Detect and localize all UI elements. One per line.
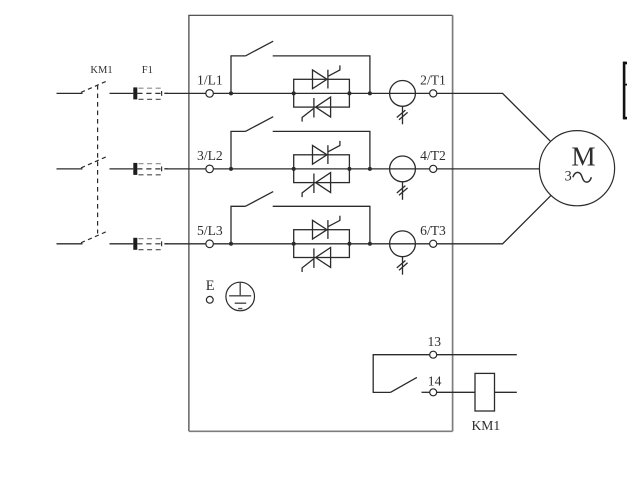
svg-text:13: 13 <box>428 334 442 349</box>
wire terminal 6/T3 to motor <box>437 195 551 243</box>
auxiliary contact (start) <box>390 377 429 392</box>
terminal 1/L1 <box>197 72 223 97</box>
terminal E (earth) <box>206 278 215 303</box>
terminal 4/T2 <box>420 148 446 173</box>
SCR V2b (reverse thyristor) <box>302 173 331 198</box>
wire coil KM1 external stub <box>495 391 517 393</box>
terminal 14 <box>428 373 442 396</box>
wire fuse to terminal 5/L3 <box>165 243 206 245</box>
contactor KM1 pole 1 (open contact, dashed blade) <box>81 81 106 92</box>
wire terminal 13 to auxiliary contact <box>373 355 430 393</box>
wire terminal 5/L3 to current transformer <box>213 243 429 245</box>
bypass contact phase 3 <box>231 192 370 244</box>
fuse F1 pole 3 <box>133 238 168 250</box>
connector block (cut off at image edge) <box>624 62 627 120</box>
svg-text:3/L2: 3/L2 <box>197 148 223 163</box>
bypass contact phase 1 <box>231 41 370 93</box>
motor M 3-phase <box>539 131 614 206</box>
label KM1 (contactor) <box>90 65 112 76</box>
node junction dots phase 1 <box>229 91 372 95</box>
svg-text:E: E <box>206 278 215 294</box>
svg-text:KM1: KM1 <box>471 418 500 433</box>
svg-text:3: 3 <box>565 168 572 184</box>
SCR V1b (reverse thyristor) <box>302 97 331 122</box>
SCR V3b (reverse thyristor) <box>302 248 331 273</box>
label F1 (fuse) <box>142 65 153 76</box>
svg-text:M: M <box>571 142 595 172</box>
svg-text:1/L1: 1/L1 <box>197 72 223 87</box>
protective earth symbol <box>226 282 255 311</box>
current transformer phase 1 <box>390 81 416 125</box>
SCR V2a (forward thyristor) <box>313 141 340 164</box>
terminal 13 <box>428 334 442 358</box>
svg-text:6/T3: 6/T3 <box>420 223 446 238</box>
wire contactor to fuse F1 pole 2 <box>110 168 134 170</box>
wire supply input phase 1 <box>57 92 83 94</box>
wire contactor to fuse F1 pole 1 <box>110 92 134 94</box>
thyristor pair frame phase 3 <box>294 230 350 258</box>
contactor KM1 pole 3 (open contact, dashed blade) <box>81 232 106 243</box>
wire terminal 13 external stub <box>437 354 517 356</box>
terminal 5/L3 <box>197 223 223 248</box>
wire terminal 1/L1 to current transformer <box>213 92 429 94</box>
SCR V3a (forward thyristor) <box>313 216 340 239</box>
current transformer phase 2 <box>390 156 416 200</box>
svg-text:2/T1: 2/T1 <box>420 72 446 87</box>
wire contactor to fuse F1 pole 3 <box>110 243 134 245</box>
wire terminal 14 to coil KM1 <box>437 391 475 393</box>
contactor KM1 mechanical linkage (dashed) <box>97 85 99 234</box>
coil KM1 <box>471 373 500 432</box>
SCR V1a (forward thyristor) <box>313 65 340 88</box>
thyristor pair frame phase 1 <box>294 79 350 107</box>
fuse F1 pole 2 <box>133 163 168 175</box>
svg-text:14: 14 <box>428 373 442 388</box>
wire fuse to terminal 3/L2 <box>165 168 206 170</box>
wire terminal 2/T1 to motor <box>437 93 551 141</box>
current transformer phase 3 <box>390 231 416 275</box>
wire terminal 4/T2 to motor <box>437 168 540 170</box>
svg-text:KM1: KM1 <box>90 65 112 76</box>
svg-text:4/T2: 4/T2 <box>420 148 446 163</box>
node junction dots phase 2 <box>229 167 372 171</box>
svg-text:5/L3: 5/L3 <box>197 223 223 238</box>
thyristor pair frame phase 2 <box>294 155 350 183</box>
svg-text:F1: F1 <box>142 65 153 76</box>
node junction dots phase 3 <box>229 242 372 246</box>
wire fuse to terminal 1/L1 <box>165 92 206 94</box>
wire terminal 3/L2 to current transformer <box>213 168 429 170</box>
wire supply input phase 3 <box>57 243 83 245</box>
terminal 2/T1 <box>420 72 446 97</box>
terminal 6/T3 <box>420 223 446 248</box>
soft starter enclosure box <box>189 15 453 431</box>
bypass contact phase 2 <box>231 117 370 169</box>
contactor KM1 pole 2 (open contact, dashed blade) <box>81 157 106 168</box>
terminal 3/L2 <box>197 148 223 173</box>
wire supply input phase 2 <box>57 168 83 170</box>
fuse F1 pole 1 <box>133 87 168 99</box>
